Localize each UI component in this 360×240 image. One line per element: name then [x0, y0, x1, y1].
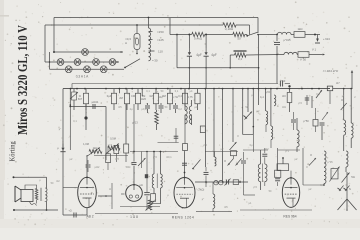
- svg-text:μ°05: μ°05: [327, 161, 333, 164]
- svg-text:0,1: 0,1: [146, 90, 150, 93]
- svg-text:μ°1: μ°1: [285, 150, 289, 153]
- svg-text:2M: 2M: [119, 96, 123, 100]
- svg-text:1,0M: 1,0M: [83, 142, 89, 146]
- svg-text:≈150: ≈150: [157, 30, 164, 34]
- svg-text:0,2: 0,2: [178, 108, 182, 111]
- svg-text:μ°: μ°: [342, 95, 344, 98]
- svg-text:0,1: 0,1: [73, 120, 77, 123]
- svg-text:μ°015: μ°015: [283, 38, 291, 42]
- svg-text:4μF: 4μF: [196, 53, 202, 57]
- svg-text:0μ4: 0μ4: [107, 94, 112, 98]
- svg-text:μ°10: μ°10: [280, 79, 286, 83]
- svg-text:+ 613: + 613: [323, 37, 330, 41]
- svg-text:5Ω: 5Ω: [245, 106, 248, 109]
- svg-text:0,5M: 0,5M: [110, 137, 116, 141]
- svg-text:V 1: V 1: [312, 48, 317, 52]
- svg-text:0,3 A 1 A: 0,3 A 1 A: [76, 75, 89, 79]
- svg-text:μ0,1: μ0,1: [142, 108, 148, 111]
- svg-text:0,5: 0,5: [115, 158, 119, 161]
- svg-text:μ50: μ50: [266, 91, 271, 94]
- svg-text:0μ1: 0μ1: [260, 96, 265, 99]
- svg-text:110: 110: [158, 50, 163, 54]
- svg-text:μΩ: μΩ: [194, 106, 197, 109]
- svg-text:μ°5: μ°5: [203, 144, 207, 147]
- svg-text:1M: 1M: [149, 94, 153, 98]
- svg-text:Körting: Körting: [8, 141, 17, 162]
- svg-text:50Ω: 50Ω: [126, 166, 131, 169]
- svg-text:0,1: 0,1: [175, 90, 179, 93]
- svg-text:607: 607: [78, 97, 83, 101]
- svg-text:CM: CM: [131, 94, 135, 98]
- svg-text:μ°2: μ°2: [298, 102, 302, 105]
- svg-text:0,1: 0,1: [316, 93, 320, 96]
- svg-text:μ°2: μ°2: [253, 186, 257, 189]
- svg-text:μΩ2: μΩ2: [95, 166, 100, 169]
- svg-text:(7kΩ): (7kΩ): [198, 188, 205, 192]
- svg-text:0,1kΩ: 0,1kΩ: [225, 27, 234, 31]
- svg-text:μ°: μ°: [59, 128, 61, 131]
- svg-text:Ω: Ω: [109, 188, 111, 191]
- svg-text:ΩΩ: ΩΩ: [282, 106, 286, 109]
- svg-text:μ°2: μ°2: [153, 156, 157, 159]
- svg-text:μ°3: μ°3: [108, 144, 112, 147]
- svg-text:1kΩ: 1kΩ: [93, 146, 98, 150]
- svg-text:RENS 1264: RENS 1264: [172, 216, 194, 220]
- svg-text:A: A: [125, 41, 127, 45]
- svg-text:I = 464·kHz: I = 464·kHz: [323, 69, 339, 73]
- svg-text:1,75: 1,75: [187, 95, 193, 99]
- svg-text:1kΩ: 1kΩ: [297, 27, 302, 31]
- svg-text:0,1: 0,1: [320, 184, 324, 187]
- svg-text:Ω0,1: Ω0,1: [166, 156, 172, 159]
- svg-text:Ω26: Ω26: [141, 97, 146, 101]
- svg-text:4μF: 4μF: [211, 53, 217, 57]
- svg-text:RES 964: RES 964: [283, 215, 296, 219]
- svg-text:μ°13: μ°13: [132, 121, 138, 125]
- svg-text:0,4kΩ: 0,4kΩ: [194, 37, 203, 41]
- svg-text:V 30: V 30: [300, 58, 307, 62]
- svg-text:1 Ω 8: 1 Ω 8: [130, 215, 138, 219]
- svg-text:≈ 30: ≈ 30: [152, 59, 158, 63]
- svg-text:μ°50: μ°50: [303, 119, 309, 123]
- svg-text:AB 2: AB 2: [86, 215, 93, 219]
- svg-text:1,7Ω: 1,7Ω: [172, 95, 178, 99]
- svg-text:μΩ41: μΩ41: [92, 100, 99, 104]
- svg-text:6M: 6M: [162, 94, 166, 98]
- svg-text:≈125: ≈125: [157, 38, 164, 42]
- svg-text:5Ω: 5Ω: [351, 175, 355, 179]
- svg-text:Ω0: Ω0: [282, 94, 286, 98]
- svg-text:50: 50: [237, 37, 241, 41]
- svg-text:0,4: 0,4: [178, 94, 182, 98]
- svg-text:μΩ: μΩ: [139, 183, 142, 187]
- svg-text:Ω7: Ω7: [336, 81, 340, 85]
- svg-text:0,1: 0,1: [238, 57, 243, 61]
- svg-text:+Ω: +Ω: [68, 210, 71, 213]
- svg-text:μ°: μ°: [202, 198, 204, 201]
- svg-text:Miros S 3220 GL, 110 V: Miros S 3220 GL, 110 V: [15, 25, 31, 135]
